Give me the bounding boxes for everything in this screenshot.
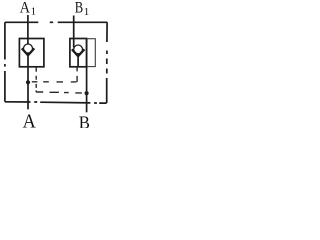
enclosure (dash-dot boundary box of valve block) (5, 22, 107, 103)
check valve CV2 (right, B-side) (70, 16, 95, 113)
valve body rectangle (19, 39, 44, 67)
wire: B1 port line down into body (73, 16, 75, 48)
seat (V) (22, 48, 35, 55)
right edge (106, 22, 108, 103)
svg-text:B: B (75, 0, 83, 17)
ball (circle) (24, 44, 33, 53)
node A1 (top left port label) (20, 0, 36, 18)
wire: B work line along body right wall down to port B (86, 39, 88, 113)
pilot piston chamber (thin box at right of body) (87, 39, 96, 67)
svg-text:1: 1 (31, 6, 36, 18)
check valve CV1 (left, A-side) (19, 15, 44, 109)
ball (circle) (74, 45, 83, 54)
wire: A1 port line down to ball (27, 15, 29, 44)
seat (V) (72, 49, 85, 56)
svg-text:A: A (20, 0, 31, 17)
wire: through line down to junction and port A (27, 55, 29, 109)
junction dot on B line (85, 91, 89, 95)
node B1 (top right port label) (75, 0, 89, 18)
pilot line X1 (from A junction to CV2 pilot, dashed) (32, 67, 77, 82)
left edge (4, 22, 6, 102)
bottom edge (5, 102, 107, 103)
valve body rectangle (70, 39, 87, 67)
svg-text:A: A (23, 112, 36, 128)
top edge (5, 21, 107, 23)
svg-text:B: B (79, 113, 90, 128)
junction dot on A line (26, 80, 30, 84)
wire: vertex stub down through body bottom (77, 56, 79, 67)
svg-text:1: 1 (84, 6, 90, 18)
pilot line X2 (from B junction to CV1 pilot, dashed) (36, 67, 82, 93)
